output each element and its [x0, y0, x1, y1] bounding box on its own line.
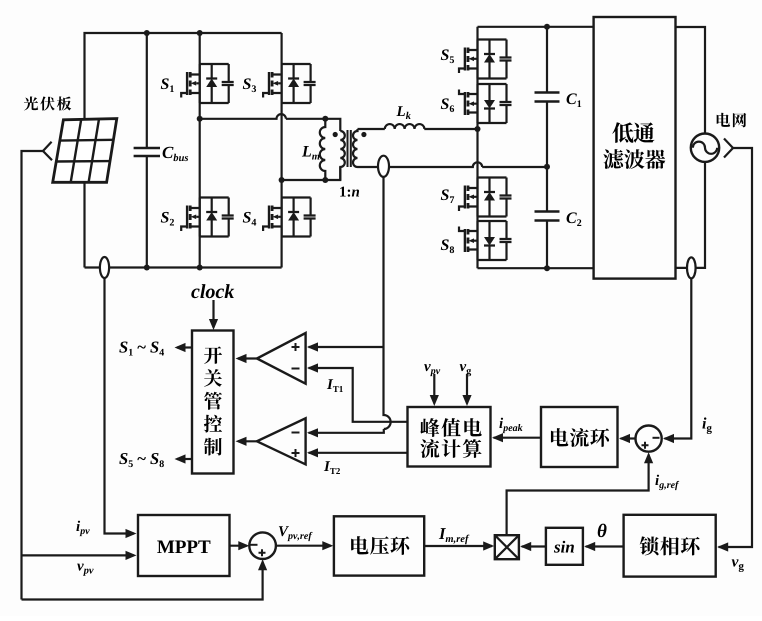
capacitor C2 [546, 167, 548, 269]
SUM2 plus sign [642, 442, 649, 449]
PV panel (solar array, slanted 3x3 grid) [53, 119, 117, 183]
arrow v_g into PLL [717, 542, 728, 551]
transistor S5 [459, 40, 512, 79]
wire i_peak from current loop to peak calc [494, 437, 542, 439]
wire: filter to grid source top [676, 27, 706, 134]
transformer polarity dot secondary [361, 132, 366, 137]
wire i_pv from DC rail sensor to MPPT [105, 278, 135, 534]
node: Lm bottom tap [322, 177, 328, 183]
label S1 [161, 78, 169, 89]
current sensor on secondary (loop) [378, 156, 389, 177]
label 光伏板 (PV panel) [24, 96, 38, 110]
label S7 [441, 189, 449, 200]
label S6 [441, 98, 449, 109]
label clock [191, 289, 199, 299]
arrow v_pv into peak calc [433, 374, 435, 404]
wire: secondary bottom to C1/C2 midpoint (hops over S leg) [358, 162, 548, 167]
block: switch control 开关管控制 [192, 331, 234, 474]
node: top right rail at C1 [544, 24, 550, 30]
node: Lm top tap [322, 116, 328, 122]
SUM2 minus sign [653, 437, 660, 439]
wire i_g feedback from grid sensor [665, 278, 692, 438]
CMP2 plus sign [292, 449, 300, 457]
node: leg1 midpoint [197, 116, 203, 122]
block: current loop 电流环 [541, 407, 618, 467]
label v_g input [460, 364, 467, 371]
label IT1 [327, 379, 333, 389]
label V_pv.ref [279, 526, 289, 536]
CMP2 minus sign [292, 432, 300, 434]
arrow SUM1 to voltage loop [276, 545, 331, 547]
wire: IT1 threshold from peak calc to CMP1 - [309, 368, 408, 422]
label C2 [567, 212, 577, 223]
wire: bottom rail right [478, 267, 594, 269]
label S5~S8 [119, 453, 127, 464]
transistor S3 [263, 64, 316, 103]
AC source: grid 电网 [691, 134, 719, 162]
capacitor C1 [546, 27, 548, 167]
wire: transformer current sensor line down (hops over IT1 wire) [309, 177, 391, 433]
SUM1 plus sign [259, 549, 266, 556]
arrow theta from PLL into sin [586, 545, 624, 547]
PV tap arrowhead < [43, 142, 52, 160]
SUM1 minus sign [251, 544, 258, 546]
label i_pv [76, 521, 80, 531]
CMP1 plus sign [292, 343, 300, 351]
node: bottom rail junction at Cbus [144, 265, 150, 271]
summing junction SUM1 [249, 532, 276, 559]
label v_g (PLL input) [732, 559, 739, 566]
wire v_pv feedback to SUM1 (bottom) [22, 562, 263, 600]
transformer T1 primary winding [340, 131, 345, 180]
current sensor i_pv (loop on bottom rail) [100, 257, 109, 278]
label v_pv input [424, 364, 431, 371]
wire: leg2 midpoint to transformer bottom [282, 167, 341, 180]
current sensor i_g (loop) [687, 257, 696, 278]
arrow sin output into multiplier [522, 545, 546, 547]
block: low-pass filter 低通滤波器 [594, 17, 676, 279]
CMP1 minus sign [292, 368, 300, 370]
label 1:n turns ratio [340, 187, 346, 197]
label S3 [243, 78, 251, 89]
wire: S3/S4 bridge leg [281, 33, 283, 268]
label S1~S4 [119, 342, 127, 353]
node: top rail junction at S1 leg [197, 30, 203, 36]
arrow v_g into peak calc [466, 374, 468, 404]
label S2 [161, 212, 169, 223]
arrow S1-S4 gate signals out [177, 346, 192, 348]
wire i_g.ref from multiplier to SUM2 [507, 455, 649, 536]
wire: sensed current into CMP1 + [309, 346, 384, 348]
wire: bridge leg1 midpoint to transformer (hops over leg2) [200, 114, 341, 131]
wire: secondary top to S5-S6 midpoint [358, 128, 478, 130]
node: S3/S4 midpoint [279, 177, 285, 183]
label i_g [702, 417, 706, 428]
transformer secondary winding [353, 129, 358, 167]
label C1 [567, 93, 577, 104]
transistor S2 [181, 198, 234, 237]
label Lk [396, 106, 405, 116]
label 电网 [717, 113, 730, 127]
label S8 [441, 239, 449, 250]
node: C1/C2 midpoint [544, 164, 550, 170]
arrow I_m.ref to multiplier [424, 545, 492, 547]
block: peak current calc 峰值电流计算 [408, 407, 491, 467]
arrow v_pv into MPPT [22, 554, 135, 556]
transformer polarity dot primary [333, 132, 338, 137]
wire: PV positive rail (top-left DC bus) [85, 33, 282, 268]
node: bottom rail junction at S2 leg [197, 265, 203, 271]
transistor S7 [459, 178, 512, 217]
transistor S6 (mirrored) [459, 84, 512, 123]
wire: top rail right [478, 26, 594, 28]
block: MPPT [138, 515, 230, 576]
arrow clock into switch control [212, 300, 214, 328]
transistor S1 (MOSFET with body diode and capacitor) [181, 64, 234, 103]
inductor Lm (magnetizing) [320, 119, 326, 180]
multiplier (boxed X) [495, 535, 519, 559]
arrow SUM2 to current loop [621, 437, 636, 439]
comparator CMP2 (triangle) [257, 418, 306, 464]
wire: PV tap to v_pv sense (left vertical) [22, 151, 44, 600]
node: top rail junction at Cbus [144, 30, 150, 36]
wire: bottom-left DC return rail [85, 266, 282, 268]
label IT2 [324, 461, 330, 471]
node: bottom right rail at C2 [544, 265, 550, 271]
label i_g.ref [655, 475, 659, 485]
capacitor Cbus [146, 33, 148, 268]
block: sin [546, 528, 583, 565]
arrow S5-S8 gate signals out [177, 458, 192, 460]
label I_m.ref [439, 528, 446, 539]
block: PLL 锁相环 [624, 515, 716, 577]
wire: grid to v_g (far right vertical) [719, 148, 753, 547]
transistor S4 [263, 198, 316, 237]
arrow CMP2 output into switch control [238, 440, 257, 442]
node: S5/S6 midpoint [475, 126, 481, 132]
wire: filter to grid source bottom [676, 162, 706, 268]
label v_pv [77, 564, 84, 571]
label i_peak [499, 418, 503, 428]
wire: S1/S2 bridge leg [199, 33, 201, 268]
comparator CMP1 (triangle) [257, 333, 306, 384]
label Cbus [163, 147, 174, 158]
arrow MPPT to SUM1 [230, 545, 247, 547]
inductor Lk (leakage) [385, 124, 425, 129]
label S5 [441, 49, 449, 60]
block: voltage loop 电压环 [334, 516, 424, 575]
transformer core [348, 130, 351, 167]
label Lm [302, 146, 311, 156]
grid tap arrowhead > [724, 139, 733, 158]
wire: IT2 threshold from peak calc to CMP2 + [309, 452, 408, 454]
wire: right bridge leg S5-S8 [476, 27, 478, 268]
label S4 [243, 212, 251, 223]
arrow CMP1 output into switch control [238, 357, 257, 359]
summing junction SUM2 [636, 426, 662, 452]
transistor S8 (mirrored) [459, 221, 512, 260]
label theta [598, 524, 607, 538]
